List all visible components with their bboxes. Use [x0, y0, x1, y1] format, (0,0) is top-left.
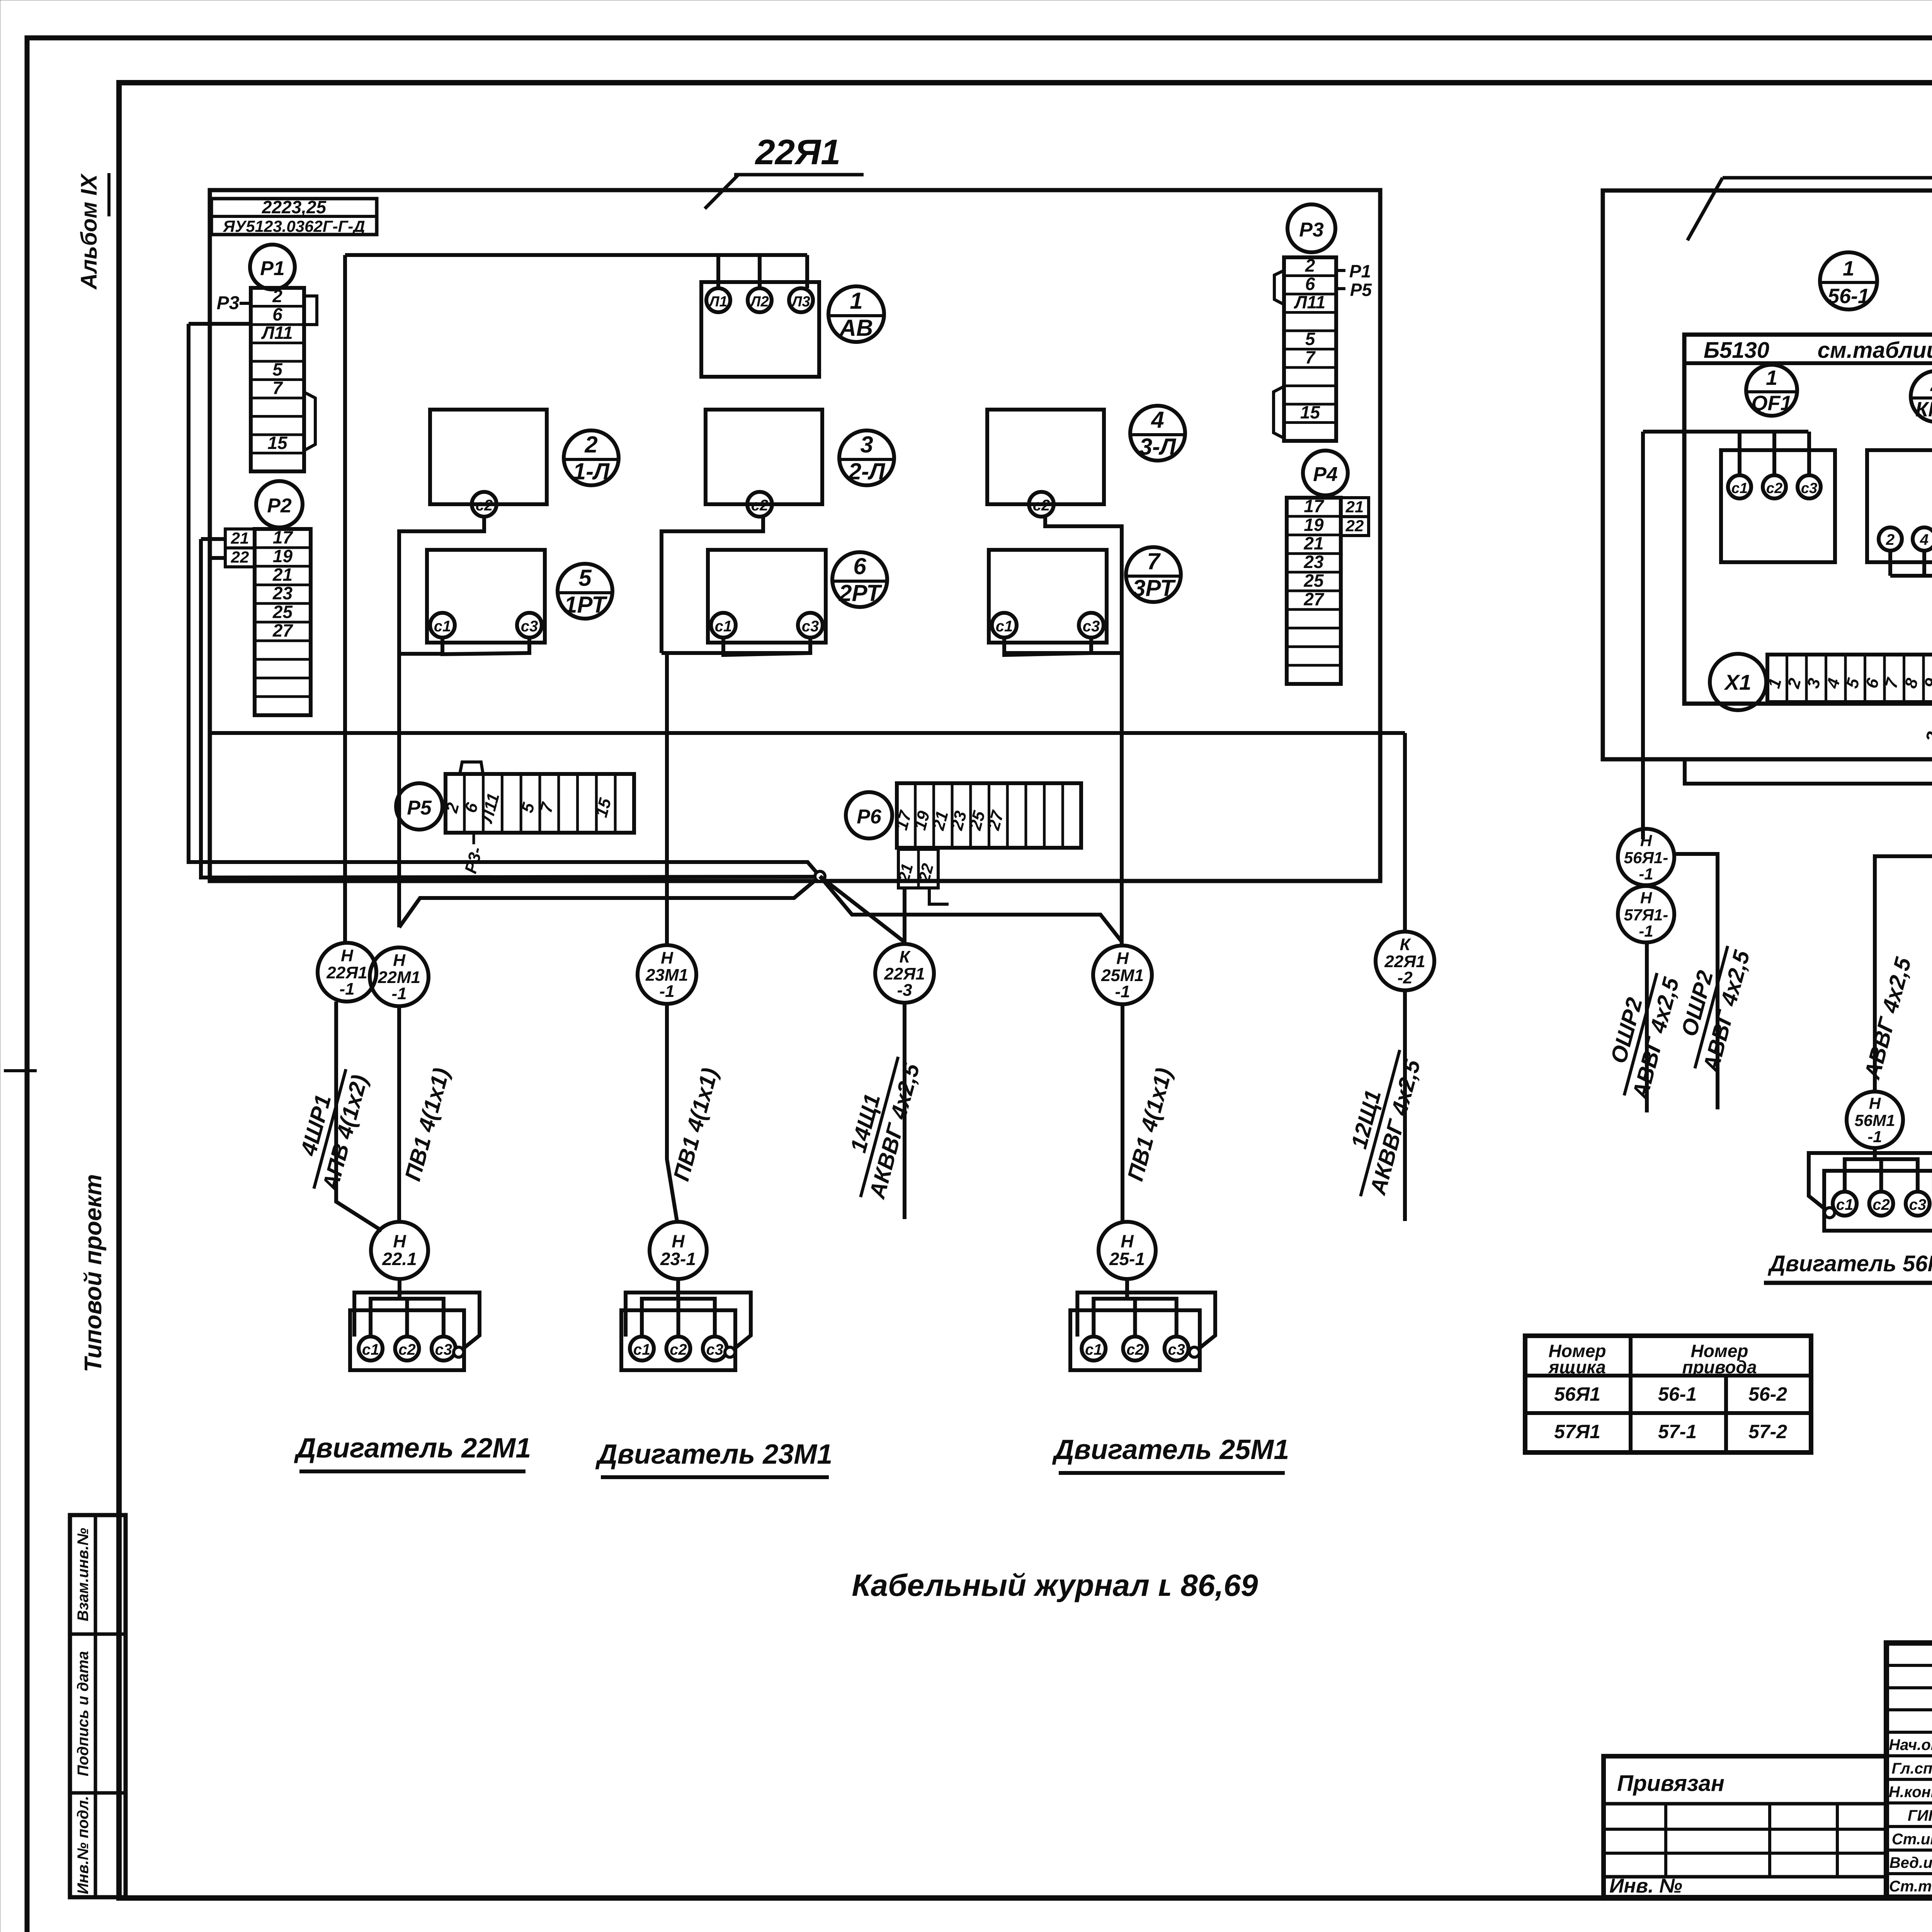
- bus y2028 right schematic: [1685, 759, 1932, 784]
- svg-text:ящика: ящика: [1548, 1357, 1606, 1377]
- svg-text:К: К: [899, 947, 911, 966]
- svg-text:17: 17: [273, 527, 294, 548]
- label Двигатель 25М1: [1052, 1434, 1289, 1473]
- svg-text:15: 15: [267, 433, 288, 453]
- tag Н/23М1/-1: [638, 945, 696, 1004]
- svg-text:QF1: QF1: [1751, 391, 1792, 415]
- svg-text:с2: с2: [751, 497, 769, 514]
- svg-text:Ст.техн: Ст.техн: [1889, 1878, 1932, 1895]
- svg-text:4: 4: [1920, 531, 1929, 548]
- cable label ПВ1 4(1х1) m23: [668, 1065, 723, 1184]
- svg-text:Л3: Л3: [791, 294, 810, 310]
- svg-text:56-2: 56-2: [1748, 1383, 1787, 1405]
- svg-text:7: 7: [272, 378, 283, 398]
- svg-text:Альбом IX: Альбом IX: [77, 173, 102, 290]
- svg-text:7: 7: [1147, 548, 1161, 574]
- svg-text:2: 2: [584, 432, 597, 457]
- cable label ОШР2/АВВГ4х2,5 a: [1598, 966, 1684, 1103]
- svg-text:-1: -1: [1115, 982, 1130, 1001]
- left vertical wire P1 row6 down: [189, 324, 820, 876]
- motor box 23М1: [621, 1277, 751, 1370]
- svg-text:-1: -1: [339, 980, 354, 998]
- tag Н/25М1/-1: [1093, 946, 1152, 1004]
- svg-text:Л2: Л2: [749, 294, 769, 310]
- svg-text:с1: с1: [715, 618, 732, 635]
- unit 2-Л: [706, 410, 822, 517]
- svg-text:3: 3: [860, 432, 873, 457]
- motor box 56М1: [1809, 1147, 1932, 1231]
- svg-text:Подпись и дата: Подпись и дата: [75, 1651, 92, 1776]
- wire c1-c3 bottom 2РТ: [723, 638, 810, 655]
- long wire from AB bus to tag 22Я1-1: [343, 255, 347, 943]
- label Двигатель 23М1: [595, 1439, 833, 1477]
- P3 bracket marks: [1274, 270, 1284, 304]
- svg-text:Инв. №: Инв. №: [1609, 1875, 1682, 1897]
- svg-text:Р3-: Р3-: [461, 845, 486, 876]
- svg-text:Р4: Р4: [1313, 463, 1338, 486]
- wire 3РТ to motor tag 25М1-1: [1004, 651, 1122, 655]
- svg-text:ПВ1 4(1х1): ПВ1 4(1х1): [668, 1065, 723, 1184]
- tag Н/57Я1/-1: [1618, 886, 1674, 942]
- svg-text:привода: привода: [1682, 1357, 1757, 1377]
- svg-text:ПВ1 4(1х1): ПВ1 4(1х1): [1122, 1065, 1177, 1184]
- wire c1-c3 bottom 1РТ: [442, 638, 529, 654]
- svg-text:-1: -1: [391, 984, 406, 1003]
- cable ОШР2 #1: [1645, 942, 1649, 1112]
- svg-text:АВВГ 4х2,5: АВВГ 4х2,5: [1859, 954, 1916, 1082]
- wire drop 14Щ1: [903, 1003, 906, 1219]
- svg-text:с2: с2: [1872, 1196, 1890, 1213]
- svg-text:6: 6: [272, 304, 282, 325]
- wire bus to AB: [345, 253, 807, 257]
- tag Н/22.1: [371, 1222, 428, 1279]
- svg-text:-1: -1: [1639, 922, 1653, 940]
- junction node: [815, 871, 825, 881]
- svg-text:2: 2: [272, 286, 282, 306]
- svg-text:Н: Н: [661, 949, 673, 968]
- svg-text:Н: Н: [1121, 1231, 1134, 1251]
- wire drop ПВ1 23М1: [667, 1004, 677, 1221]
- svg-text:2: 2: [1922, 730, 1932, 745]
- cable label ПВ1 4(1х1) m22: [400, 1065, 454, 1184]
- svg-text:-1: -1: [1639, 865, 1653, 883]
- svg-text:АВ: АВ: [839, 315, 873, 341]
- svg-text:Л11: Л11: [1294, 292, 1325, 312]
- svg-text:Н: Н: [1116, 949, 1129, 968]
- svg-text:19: 19: [1304, 515, 1324, 535]
- designator 6/2РТ: [832, 552, 887, 607]
- P6 lower cells 21 22: [894, 849, 938, 888]
- svg-text:57Я1-: 57Я1-: [1624, 906, 1668, 924]
- tag Н/23-1: [650, 1222, 707, 1279]
- svg-text:ПВ1 4(1х1): ПВ1 4(1х1): [400, 1065, 454, 1184]
- tag Н/22М1/-1: [370, 947, 429, 1006]
- svg-text:КМ1: КМ1: [1915, 398, 1932, 421]
- type label box 2223,25 / ЯУ5123.0362Г-Г-Д: [211, 197, 377, 235]
- svg-text:с3: с3: [802, 618, 819, 635]
- svg-text:Гл.спец.: Гл.спец.: [1892, 1760, 1932, 1777]
- svg-text:56М1: 56М1: [1854, 1111, 1895, 1129]
- svg-text:23: 23: [1303, 552, 1324, 572]
- tag Н/25-1: [1099, 1222, 1156, 1279]
- unit QF1 #1: [1721, 432, 1835, 562]
- wire drop 4ШР1: [336, 1002, 382, 1231]
- svg-text:2РТ: 2РТ: [838, 580, 882, 606]
- svg-text:22.1: 22.1: [382, 1249, 417, 1269]
- P2 side cells 21 22: [225, 529, 255, 567]
- designator 2/КМ1 #1: [1911, 371, 1932, 422]
- svg-text:23: 23: [272, 583, 293, 603]
- unit 3-Л: [987, 410, 1104, 517]
- wire from c2 of 1-Л down to 1РТ: [399, 517, 484, 653]
- wire c1-c3 bottom 3РТ: [1004, 638, 1091, 655]
- svg-text:Р1: Р1: [1349, 261, 1371, 281]
- svg-text:Р5: Р5: [1350, 280, 1372, 300]
- unit 3РТ: [989, 550, 1107, 643]
- svg-text:Н: Н: [1640, 832, 1653, 850]
- svg-text:с2: с2: [1126, 1341, 1144, 1358]
- svg-text:с2: с2: [476, 497, 493, 514]
- svg-text:с1: с1: [633, 1341, 651, 1358]
- svg-text:2-Л: 2-Л: [848, 458, 886, 484]
- unit КМ1 #1: [1867, 450, 1932, 576]
- P5 top notch: [460, 762, 483, 774]
- svg-text:с2: с2: [1766, 480, 1782, 497]
- svg-text:1РТ: 1РТ: [564, 592, 607, 617]
- svg-text:6: 6: [1305, 274, 1315, 294]
- relay P3 circle: [1287, 204, 1335, 252]
- relay P2 circle: [256, 481, 303, 527]
- fold mark tick: [4, 1069, 37, 1072]
- svg-text:2: 2: [1886, 531, 1895, 548]
- tag Н/56М1/-1 motor: [1847, 1092, 1903, 1148]
- svg-text:с3: с3: [1168, 1341, 1185, 1358]
- svg-text:Типовой проект: Типовой проект: [80, 1174, 107, 1372]
- title block frame: [1886, 1643, 1932, 1897]
- svg-text:Кабельный журнал ʟ 86,69: Кабельный журнал ʟ 86,69: [852, 1568, 1258, 1602]
- label 22Я1 with leader: [705, 133, 864, 209]
- wire drop 12Щ1: [1403, 990, 1407, 1221]
- svg-text:Нач.отд.: Нач.отд.: [1889, 1736, 1932, 1753]
- svg-text:Р3: Р3: [217, 293, 240, 313]
- wire from c2 of 2-Л down: [662, 517, 763, 653]
- svg-text:5: 5: [272, 359, 283, 379]
- svg-text:с3: с3: [521, 618, 538, 635]
- svg-text:1: 1: [850, 288, 862, 314]
- svg-text:3-Л: 3-Л: [1139, 434, 1177, 459]
- terminal X1 #1: [1710, 654, 1932, 710]
- svg-text:17: 17: [1304, 496, 1325, 516]
- terminal strip P1: [251, 286, 304, 471]
- tag Н/22Я1/-1: [318, 943, 376, 1002]
- P4 side cells 21 22: [1341, 498, 1369, 536]
- svg-text:Р2: Р2: [267, 495, 292, 517]
- svg-text:Н: Н: [1640, 889, 1653, 907]
- svg-text:Двигатель 25М1: Двигатель 25М1: [1052, 1434, 1289, 1465]
- svg-text:5: 5: [578, 565, 592, 591]
- P5 strip group: [396, 783, 442, 830]
- unit 1-Л: [430, 410, 547, 517]
- terminal strip P6: [892, 783, 1081, 848]
- cable label 4ШР1/АПВ 4(1х2): [288, 1062, 373, 1196]
- relay P1 circle: [250, 245, 295, 289]
- svg-text:-3: -3: [897, 981, 912, 1000]
- svg-text:2: 2: [1930, 372, 1932, 396]
- svg-text:27: 27: [272, 621, 294, 641]
- svg-text:с3: с3: [1801, 480, 1817, 497]
- svg-text:Н: Н: [341, 946, 354, 965]
- svg-text:27: 27: [984, 808, 1008, 832]
- wires to P2 cells 21 22: [201, 537, 225, 541]
- terminal strip P3: [1284, 255, 1336, 441]
- svg-text:с3: с3: [1909, 1196, 1927, 1213]
- bus y1897: [210, 731, 1405, 735]
- slant wire junction to К22Я1-3: [820, 876, 905, 942]
- designator 3/2-Л: [839, 430, 894, 485]
- svg-text:56-1: 56-1: [1658, 1383, 1697, 1405]
- svg-text:Р6: Р6: [857, 806, 882, 828]
- enclosure 22Я1: [210, 190, 1380, 881]
- privyazan block: [1604, 1756, 1886, 1897]
- cable label АВВГ4х2,5 m56M1: [1859, 954, 1916, 1082]
- designator 1/56-1: [1820, 252, 1877, 310]
- svg-text:ЯУ5123.0362Г-Г-Д: ЯУ5123.0362Г-Г-Д: [223, 217, 365, 235]
- svg-text:с2: с2: [1033, 497, 1050, 514]
- svg-text:Р5: Р5: [407, 797, 432, 819]
- slant bus to 25М1-1: [820, 876, 1122, 942]
- terminal strip P2: [255, 527, 311, 715]
- svg-text:с3: с3: [706, 1341, 724, 1358]
- svg-text:см.таблицу: см.таблицу: [1818, 338, 1932, 363]
- svg-text:22Я1: 22Я1: [755, 133, 841, 172]
- svg-text:23: 23: [947, 809, 970, 832]
- svg-text:21: 21: [272, 565, 293, 585]
- svg-text:Х1: Х1: [1724, 670, 1752, 694]
- wires КМ1#1 collect: [1890, 574, 1932, 578]
- svg-text:21: 21: [231, 529, 249, 547]
- wire motor 56М1 up: [1875, 856, 1932, 1092]
- wire 2РТ to motor tag 23М1-1: [662, 651, 810, 655]
- svg-text:с3: с3: [435, 1341, 452, 1358]
- cable label ОШР2/АВВГ4х2,5 b: [1669, 939, 1755, 1076]
- svg-text:-2: -2: [1397, 968, 1413, 987]
- designator 1/АВ: [828, 286, 884, 342]
- svg-text:1: 1: [1766, 366, 1777, 389]
- relay P4 circle: [1303, 451, 1348, 495]
- cable label 12Щ1/АКВВГ 4х2,5: [1334, 1043, 1427, 1204]
- svg-text:Н: Н: [393, 951, 406, 970]
- designator 7/3РТ: [1126, 547, 1181, 602]
- designator 4/3-Л: [1130, 406, 1185, 461]
- unit 1РТ: [427, 550, 545, 643]
- motor box 22М1: [350, 1277, 480, 1370]
- svg-text:с1: с1: [1085, 1341, 1102, 1358]
- svg-text:21: 21: [929, 809, 952, 832]
- svg-text:Л1: Л1: [708, 294, 727, 310]
- svg-text:6: 6: [853, 553, 866, 579]
- svg-text:Двигатель 22М1: Двигатель 22М1: [294, 1433, 531, 1464]
- svg-text:Р1: Р1: [260, 257, 285, 280]
- cable label 14Щ1/АКВВГ 4х2,5: [835, 1050, 925, 1204]
- P6 strip group: [846, 792, 892, 838]
- svg-text:27: 27: [1303, 589, 1325, 609]
- svg-text:Р3: Р3: [1299, 219, 1324, 241]
- svg-text:ГИП: ГИП: [1908, 1807, 1932, 1824]
- svg-text:1-Л: 1-Л: [573, 458, 610, 484]
- svg-text:с1: с1: [996, 618, 1013, 635]
- svg-text:с2: с2: [670, 1341, 687, 1358]
- label Двигатель 56М1: [1764, 1251, 1932, 1283]
- svg-text:Вед.инж.: Вед.инж.: [1889, 1854, 1932, 1871]
- svg-text:56Я1-: 56Я1-: [1624, 849, 1668, 867]
- wire from c2 of 3-Л down: [1045, 517, 1122, 946]
- unit AB (circuit breaker): [701, 282, 819, 377]
- svg-text:25: 25: [272, 602, 293, 622]
- svg-text:1: 1: [1843, 257, 1854, 280]
- wire 1РТ to motor tag 22М1-1: [397, 653, 401, 927]
- terminal strip P5: [442, 774, 634, 833]
- svg-text:56-1: 56-1: [1828, 285, 1869, 308]
- svg-text:25-1: 25-1: [1109, 1249, 1145, 1269]
- unit box Б5130 #1: [1684, 335, 1932, 704]
- svg-text:с1: с1: [362, 1341, 379, 1358]
- svg-text:с1: с1: [434, 618, 451, 635]
- svg-text:Ст.инж.: Ст.инж.: [1892, 1831, 1932, 1848]
- tag К/22Я1/-3: [875, 944, 934, 1003]
- cable label ПВ1 4(1х1) m25: [1122, 1065, 1177, 1184]
- connector bracket P1: [304, 296, 317, 325]
- wire from P6 cell21 down: [903, 888, 906, 944]
- designator 5/1РТ: [558, 564, 612, 619]
- wire from P6 cell22 down: [929, 888, 949, 904]
- svg-text:-1: -1: [1867, 1128, 1882, 1146]
- svg-text:25: 25: [1303, 570, 1324, 590]
- wire drop ПВ1 25М1: [1121, 1004, 1124, 1221]
- svg-text:Привязан: Привязан: [1617, 1771, 1725, 1796]
- motor box 25М1: [1070, 1277, 1215, 1370]
- svg-text:57-1: 57-1: [1658, 1421, 1697, 1442]
- svg-text:Л11: Л11: [261, 323, 293, 343]
- wires QF1#1 to left drop: [1643, 430, 1808, 434]
- svg-text:Б5130: Б5130: [1704, 338, 1769, 363]
- svg-text:19: 19: [273, 546, 293, 566]
- svg-text:7: 7: [1305, 347, 1316, 367]
- svg-text:19: 19: [910, 809, 934, 832]
- svg-text:Н.контр.: Н.контр.: [1889, 1784, 1932, 1801]
- designator 2/1-Л: [564, 430, 619, 485]
- svg-text:23-1: 23-1: [660, 1249, 696, 1269]
- enclosure 56Я1(57Я1): [1603, 190, 1932, 759]
- svg-text:57-2: 57-2: [1748, 1421, 1787, 1442]
- svg-text:15: 15: [1300, 402, 1321, 422]
- tag К/22Я1/-2: [1376, 932, 1434, 990]
- tag Н/56Я1/-1: [1618, 829, 1674, 885]
- svg-text:2: 2: [1305, 255, 1315, 276]
- svg-text:25: 25: [966, 809, 989, 832]
- signature table: [1886, 1643, 1932, 1897]
- svg-text:с3: с3: [1083, 618, 1100, 635]
- svg-text:Н: Н: [672, 1231, 685, 1251]
- left stamp table: [70, 1515, 126, 1897]
- table Номер ящика / Номер привода: [1525, 1336, 1811, 1452]
- svg-text:3РТ: 3РТ: [1133, 575, 1176, 601]
- svg-text:22: 22: [1345, 517, 1364, 535]
- svg-text:4: 4: [1151, 407, 1164, 433]
- svg-text:с2: с2: [398, 1341, 416, 1358]
- svg-text:с1: с1: [1731, 480, 1748, 497]
- labels -P1 -P5: [1337, 261, 1372, 300]
- label 56Я1(57Я1) with leader: [1687, 138, 1932, 240]
- svg-text:57Я1: 57Я1: [1554, 1421, 1600, 1442]
- bus B to junction: [201, 539, 820, 878]
- wire drop ПВ1 22М1: [397, 1006, 401, 1221]
- label Двигатель 22М1: [294, 1433, 531, 1471]
- svg-text:Двигатель 56М1: Двигатель 56М1: [1767, 1251, 1932, 1276]
- bus C to 22М1-1: [399, 876, 820, 927]
- svg-text:К: К: [1400, 935, 1411, 954]
- label P3-: [217, 293, 251, 313]
- svg-text:с1: с1: [1836, 1196, 1854, 1213]
- terminal strip P4: [1287, 496, 1341, 684]
- svg-text:22: 22: [231, 548, 249, 566]
- svg-text:Двигатель 23М1: Двигатель 23М1: [595, 1439, 833, 1470]
- svg-text:-1: -1: [659, 982, 674, 1001]
- svg-text:Л11: Л11: [477, 791, 503, 825]
- svg-text:Н: Н: [1869, 1094, 1881, 1112]
- svg-text:Н: Н: [393, 1231, 406, 1251]
- svg-text:Инв.№ подл.: Инв.№ подл.: [75, 1796, 92, 1895]
- designator 1/QF1 #1: [1746, 365, 1797, 416]
- cable ОШР2 #2: [1674, 854, 1718, 1109]
- svg-text:2223,25: 2223,25: [262, 197, 327, 217]
- svg-text:56Я1: 56Я1: [1554, 1383, 1600, 1405]
- svg-text:21: 21: [1345, 498, 1364, 516]
- svg-text:5: 5: [1305, 329, 1316, 349]
- wire bus down to К22Я1-2: [1403, 733, 1407, 932]
- svg-text:Взам.инв.№: Взам.инв.№: [75, 1528, 92, 1621]
- unit 2РТ: [708, 550, 826, 643]
- svg-text:21: 21: [1303, 533, 1323, 553]
